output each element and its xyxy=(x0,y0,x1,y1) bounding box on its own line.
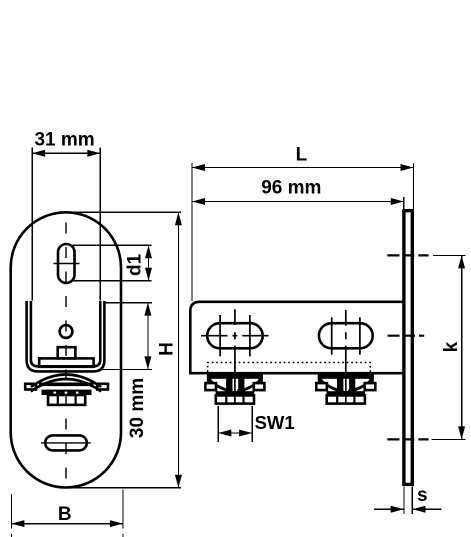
front view top slot crosshair xyxy=(54,263,80,265)
washer straight bar front view xyxy=(39,383,94,387)
dimension d1 xyxy=(73,245,153,280)
svg-text:L: L xyxy=(296,144,308,165)
dimension SW1 xyxy=(218,406,294,442)
svg-text:d1: d1 xyxy=(125,253,146,276)
U-channel inner contour xyxy=(31,301,100,366)
front view vertical centerline xyxy=(65,223,67,483)
dimension 31 mm xyxy=(32,129,100,300)
front view bottom slot xyxy=(45,435,87,450)
right wing tab front view xyxy=(97,384,108,390)
serrated flange front view xyxy=(42,390,92,395)
side view slot 1 xyxy=(207,323,263,348)
left wing tab front view xyxy=(25,384,36,390)
dimension s xyxy=(374,485,441,514)
svg-text:31 mm: 31 mm xyxy=(34,129,94,150)
svg-text:96 mm: 96 mm xyxy=(261,177,321,198)
svg-text:H: H xyxy=(156,342,177,356)
svg-text:SW1: SW1 xyxy=(255,412,295,433)
hole centerline top xyxy=(387,254,428,256)
svg-text:30 mm: 30 mm xyxy=(127,378,148,438)
side view bracket outline xyxy=(190,302,403,373)
dimension L xyxy=(192,144,414,300)
slot 1 crosshairs xyxy=(201,315,269,356)
dimension 96 mm xyxy=(192,177,404,210)
slot 1 vertical centerline xyxy=(234,309,236,404)
bottom slot crosshair xyxy=(41,442,91,444)
front view plate outline xyxy=(11,212,121,487)
svg-text:s: s xyxy=(417,485,428,506)
bolt head tab xyxy=(58,347,76,358)
bell washer arcs front view xyxy=(31,375,101,392)
slot 2 crosshairs xyxy=(332,317,360,354)
U-channel outer contour xyxy=(27,301,105,371)
dimension H xyxy=(67,212,182,488)
side view slot 2 xyxy=(319,323,373,348)
nut assembly 2 side view xyxy=(316,375,375,404)
svg-text:B: B xyxy=(58,504,72,525)
dimension B xyxy=(11,490,123,537)
hidden hammer head dotted line xyxy=(208,363,371,373)
svg-text:k: k xyxy=(441,341,462,352)
hex nut front view xyxy=(48,395,85,405)
hole in channel xyxy=(60,325,73,338)
hole centerline middle xyxy=(388,335,425,337)
slot 2 vertical centerline xyxy=(345,310,347,404)
nut assembly 1 side view xyxy=(205,375,264,404)
wall plate side view xyxy=(404,211,412,485)
hole centerline bottom xyxy=(387,438,428,440)
hammer head plate xyxy=(39,358,93,366)
front view top slot d1 xyxy=(58,244,75,283)
dimension k xyxy=(432,255,466,439)
dimension 30 mm xyxy=(98,303,152,439)
